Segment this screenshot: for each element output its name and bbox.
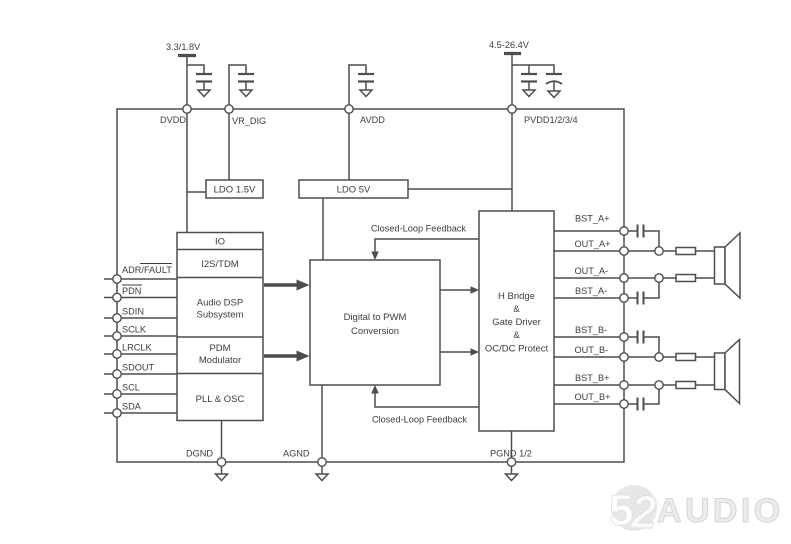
wire BST_A- — [554, 282, 659, 298]
wire AVDD vertical (cap branch to LDO 5V) — [349, 65, 366, 180]
junction node OUT_A- ext — [655, 274, 663, 282]
svg-text:SCLK: SCLK — [122, 325, 147, 335]
svg-text:BST_B+: BST_B+ — [575, 373, 609, 383]
svg-text:SCL: SCL — [122, 383, 140, 393]
svg-text:Digital to PWM: Digital to PWM — [344, 312, 407, 323]
ferrite bead FB4 — [676, 382, 696, 389]
U-PWM block Digital to PWM Conversion — [310, 260, 440, 385]
wire BST_A+ — [554, 231, 659, 247]
capacitor C1 (DVDD decoupling) — [196, 73, 212, 75]
wire OUT_B+ — [554, 389, 659, 404]
wire LDO1.5 input stub — [187, 191, 206, 193]
svg-text:BST_B-: BST_B- — [575, 325, 607, 335]
svg-text:IO: IO — [215, 237, 225, 248]
junction node DVDD — [183, 105, 191, 113]
wire VR_DIG vertical (cap branch to LDO 1.5V) — [229, 65, 246, 180]
wire LRCLK — [104, 353, 177, 355]
pin node LRCLK — [113, 350, 121, 358]
pin node ADR/FAULT — [113, 275, 121, 283]
pin node SDA — [113, 409, 121, 417]
svg-text:OUT_A-: OUT_A- — [575, 266, 609, 276]
junction node BST_B+ ext — [655, 381, 663, 389]
svg-text:Audio DSP: Audio DSP — [197, 298, 243, 309]
block stack IO / I2S/TDM / Audio DSP / PDM / PLL — [177, 233, 263, 421]
junction node PVDD — [508, 105, 516, 113]
capacitor C4 (PVDD decoupling) — [521, 73, 537, 75]
svg-text:DGND: DGND — [186, 449, 213, 459]
wire PVDD vertical (rail to H bridge) — [511, 55, 513, 211]
signal arrow PWM to H bridge (upper) — [440, 289, 472, 291]
svg-text:&: & — [513, 330, 520, 341]
svg-text:OUT_A+: OUT_A+ — [575, 239, 611, 249]
ground symbol G4 — [523, 90, 535, 97]
pin node BST_A- — [620, 294, 628, 302]
ferrite bead FB2 — [676, 275, 696, 282]
capacitor C7 (bootstrap A-) — [638, 292, 644, 305]
svg-text:SDA: SDA — [122, 402, 142, 412]
wire closed-loop feedback top — [375, 239, 479, 252]
ground symbol G5 — [548, 91, 560, 98]
svg-text:AGND: AGND — [283, 449, 310, 459]
svg-text:Closed-Loop Feedback: Closed-Loop Feedback — [371, 224, 466, 234]
LDO2 block LDO 5V — [299, 180, 408, 198]
svg-text:H Bridge: H Bridge — [498, 291, 535, 302]
svg-text:PGND 1/2: PGND 1/2 — [490, 449, 532, 459]
wire PDN — [104, 297, 177, 299]
LDO1 block LDO 1.5V — [206, 180, 263, 198]
watermark logo 52AUDIO — [611, 485, 657, 531]
wire SCL — [104, 393, 177, 395]
svg-text:AUDIO: AUDIO — [657, 492, 784, 530]
junction node VR_DIG — [225, 105, 233, 113]
wire OUT_A+ — [554, 250, 715, 252]
power rail 3.3/1.8V bar — [178, 54, 196, 57]
svg-text:ADR/FAULT: ADR/FAULT — [122, 265, 172, 275]
ground symbol G3 — [360, 90, 372, 97]
pin node SDOUT — [113, 370, 121, 378]
svg-text:BST_A-: BST_A- — [575, 286, 607, 296]
svg-text:AVDD: AVDD — [360, 115, 385, 125]
pin node OUT_B+ — [620, 400, 628, 408]
svg-text:Subsystem: Subsystem — [197, 310, 244, 321]
bus arrow PDM to PWM (thick) — [264, 354, 298, 357]
wire SDA — [104, 412, 177, 414]
pin node OUT_A- — [620, 274, 628, 282]
wire PGND (H bridge to bottom edge) — [511, 431, 513, 462]
ground symbol DGND — [221, 466, 223, 474]
svg-text:VR_DIG: VR_DIG — [232, 116, 266, 126]
capacitor C5 (PVDD bulk, polarized) — [546, 73, 562, 75]
power rail 4.5-26.4V bar — [504, 52, 521, 55]
U-HB block H Bridge Gate Driver OC/DC Protect — [479, 211, 554, 431]
svg-text:LDO 5V: LDO 5V — [337, 185, 371, 196]
pin node BST_B+ — [620, 381, 628, 389]
ground symbol G1 — [198, 90, 210, 97]
capacitor C8 (bootstrap B-) — [638, 331, 644, 344]
wire LDO5V to PWM block — [322, 198, 324, 260]
svg-text:LDO 1.5V: LDO 1.5V — [214, 185, 256, 196]
wire ADR/FAULT — [104, 278, 177, 280]
ferrite bead FB1 — [676, 248, 696, 255]
pin node SCLK — [113, 332, 121, 340]
svg-text:OUT_B+: OUT_B+ — [575, 392, 611, 402]
svg-text:Gate Driver: Gate Driver — [492, 317, 541, 328]
svg-text:2: 2 — [630, 486, 657, 538]
capacitor C2 (VR_DIG decoupling) — [238, 73, 254, 75]
pin node OUT_B- — [620, 353, 628, 361]
svg-text:LRCLK: LRCLK — [122, 343, 152, 353]
pin node SDIN — [113, 314, 121, 322]
pin node PDN — [113, 293, 121, 301]
wire SCLK — [104, 335, 177, 337]
wire OUT_B- — [554, 356, 715, 358]
ground symbol G2 — [240, 90, 252, 97]
svg-text:OC/DC Protect: OC/DC Protect — [485, 344, 549, 355]
svg-text:PDN: PDN — [122, 286, 141, 296]
wire BST_B- — [554, 337, 659, 353]
svg-text:&: & — [513, 304, 520, 315]
svg-text:5: 5 — [609, 486, 633, 535]
speaker SPK1 — [715, 233, 741, 298]
junction node AGND — [318, 458, 326, 466]
svg-text:Modulator: Modulator — [199, 355, 241, 366]
wire DVDD cap branch — [187, 65, 204, 74]
svg-text:SDIN: SDIN — [122, 307, 144, 317]
wire closed-loop feedback bottom — [375, 393, 479, 407]
junction node OUT_A+ ext — [655, 247, 663, 255]
signal arrow PWM to H bridge (lower) — [440, 351, 472, 353]
svg-text:SDOUT: SDOUT — [122, 363, 155, 373]
svg-text:DVDD: DVDD — [160, 115, 186, 125]
svg-text:OUT_B-: OUT_B- — [575, 345, 609, 355]
junction node DGND — [217, 458, 225, 466]
wire SDOUT — [104, 373, 177, 375]
svg-text:3.3/1.8V: 3.3/1.8V — [166, 42, 201, 52]
svg-text:PDM: PDM — [209, 343, 230, 354]
capacitor C9 (bootstrap B+) — [638, 398, 644, 411]
wire OUT_A- — [554, 277, 715, 279]
capacitor C6 (bootstrap A+) — [638, 225, 644, 238]
svg-text:PVDD1/2/3/4: PVDD1/2/3/4 — [524, 115, 578, 125]
pin node BST_A+ — [620, 227, 628, 235]
ground symbol PGND — [511, 466, 513, 474]
wire AGND (PWM to bottom edge) — [321, 385, 323, 462]
svg-text:I2S/TDM: I2S/TDM — [201, 259, 239, 270]
bus arrow DSP to PWM (thick) — [264, 283, 298, 286]
pin node OUT_A+ — [620, 247, 628, 255]
chip boundary box — [117, 109, 624, 462]
svg-text:Closed-Loop Feedback: Closed-Loop Feedback — [372, 415, 467, 425]
svg-text:Conversion: Conversion — [351, 326, 399, 337]
junction node OUT_B- ext — [655, 353, 663, 361]
wire PVDD cap branch — [512, 65, 554, 74]
pin node BST_B- — [620, 333, 628, 341]
svg-text:PLL & OSC: PLL & OSC — [196, 394, 245, 405]
wire LDO5V to PVDD — [408, 188, 512, 190]
capacitor C3 (AVDD decoupling) — [358, 73, 374, 75]
speaker SPK2 — [715, 340, 740, 404]
wire DVDD vertical (rail to IO block) — [186, 57, 188, 233]
wire SDIN — [104, 317, 177, 319]
ground symbol AGND — [321, 466, 323, 474]
pin node SCL — [113, 390, 121, 398]
wire BST_B+ — [554, 384, 715, 386]
svg-text:4.5-26.4V: 4.5-26.4V — [489, 40, 530, 50]
svg-text:BST_A+: BST_A+ — [575, 214, 609, 224]
junction node AVDD — [345, 105, 353, 113]
ferrite bead FB3 — [676, 354, 696, 361]
junction node PGND — [507, 458, 515, 466]
wire DGND (PLL to bottom edge) — [221, 421, 223, 463]
